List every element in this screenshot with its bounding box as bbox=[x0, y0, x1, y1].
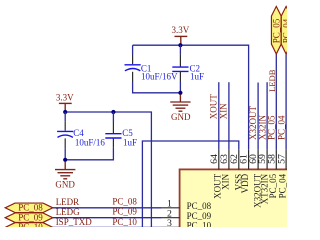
pin 59 bbox=[266, 150, 268, 170]
IC U1 body bbox=[180, 169, 295, 231]
svg-text:XIN: XIN bbox=[218, 103, 228, 119]
capacitor C2 bbox=[172, 54, 204, 81]
port PC_09 bbox=[5, 212, 53, 222]
power port 3.3V #1 bbox=[172, 25, 190, 45]
node junction C1 C2 bottom bbox=[178, 91, 182, 95]
svg-text:PC_05: PC_05 bbox=[268, 173, 278, 198]
pin 57 bbox=[285, 150, 287, 170]
svg-text:PC_08: PC_08 bbox=[187, 201, 212, 211]
svg-text:LEDR: LEDR bbox=[56, 197, 79, 207]
node junction rail2 C5 bbox=[111, 110, 115, 114]
svg-text:PC_04: PC_04 bbox=[278, 173, 287, 198]
wire XIN bbox=[228, 82, 230, 150]
svg-text:PC_10: PC_10 bbox=[187, 221, 212, 227]
svg-text:XOUT: XOUT bbox=[208, 94, 218, 119]
wire C1 branch upper bbox=[132, 45, 134, 54]
wire VSS routing bbox=[142, 141, 238, 228]
pin 61 bbox=[248, 150, 250, 170]
svg-text:PC_08: PC_08 bbox=[112, 196, 137, 206]
node junction rail1 3.3V bbox=[178, 43, 182, 47]
wire C1 branch lower bbox=[133, 82, 181, 93]
svg-text:10uF/16: 10uF/16 bbox=[75, 137, 106, 147]
node junction C4 C5 bottom bbox=[63, 158, 67, 162]
svg-text:PC_10: PC_10 bbox=[18, 222, 43, 227]
wire C2 branch upper bbox=[179, 45, 181, 54]
svg-text:1uF: 1uF bbox=[190, 72, 204, 82]
capacitor C1 bbox=[125, 55, 179, 83]
svg-text:C4: C4 bbox=[73, 128, 84, 138]
port PC_04 top bbox=[281, 6, 291, 54]
wire PC_05 port to pin bbox=[275, 54, 277, 150]
svg-text:3.3V: 3.3V bbox=[56, 93, 74, 103]
wire PC_04 port to pin bbox=[285, 54, 287, 150]
wire LEDG row bbox=[53, 217, 162, 219]
svg-text:LEDG: LEDG bbox=[56, 207, 80, 217]
svg-text:X32OUT: X32OUT bbox=[248, 106, 258, 140]
wire 3.3V rail top bbox=[133, 45, 249, 150]
pin 63 bbox=[228, 150, 230, 170]
pin 58 bbox=[275, 150, 277, 170]
svg-text:C5: C5 bbox=[122, 128, 133, 138]
wire X32OUT bbox=[257, 83, 259, 150]
svg-text:VDD: VDD bbox=[240, 173, 250, 193]
svg-text:GND: GND bbox=[171, 112, 191, 122]
svg-text:PC_05: PC_05 bbox=[267, 115, 277, 140]
pin 2 bbox=[162, 217, 180, 219]
capacitor C5 bbox=[105, 123, 137, 148]
svg-text:PC_09: PC_09 bbox=[187, 211, 212, 221]
port PC_08 bbox=[5, 202, 53, 212]
svg-text:LEDB: LEDB bbox=[267, 69, 277, 92]
node junction rail2 3.3V bbox=[63, 110, 67, 114]
capacitor C4 bbox=[57, 121, 105, 148]
svg-text:PC_04: PC_04 bbox=[281, 18, 287, 43]
wire C4 branch lower bbox=[64, 149, 66, 160]
svg-text:PC_09: PC_09 bbox=[18, 212, 43, 222]
svg-text:10uF/16V: 10uF/16V bbox=[141, 72, 178, 82]
pin 1 bbox=[162, 207, 180, 209]
svg-text:3.3V: 3.3V bbox=[172, 25, 190, 35]
pin 60 bbox=[257, 150, 259, 170]
pin 64 bbox=[218, 150, 220, 170]
wire C5 branch upper bbox=[112, 112, 114, 123]
wire LEDR row bbox=[53, 207, 162, 209]
svg-text:1uF: 1uF bbox=[123, 137, 137, 147]
svg-text:GND: GND bbox=[55, 180, 75, 190]
port PC_10 bbox=[5, 222, 53, 232]
pin 62 bbox=[238, 150, 240, 170]
ground GND #1 bbox=[170, 94, 191, 122]
wire ISP_TXD row bbox=[53, 226, 162, 228]
wire XOUT bbox=[218, 82, 220, 150]
svg-text:PC_10: PC_10 bbox=[112, 217, 137, 227]
port PC_05 top bbox=[271, 6, 281, 54]
svg-text:PC_09: PC_09 bbox=[112, 207, 137, 217]
power port 3.3V #2 bbox=[56, 93, 74, 112]
svg-text:3: 3 bbox=[167, 218, 172, 227]
svg-text:ISP_TXD: ISP_TXD bbox=[56, 217, 93, 227]
svg-text:XIN: XIN bbox=[220, 173, 230, 189]
svg-text:PC_08: PC_08 bbox=[18, 202, 43, 212]
wire C5 branch lower bbox=[65, 148, 113, 160]
svg-text:PC_05: PC_05 bbox=[272, 18, 282, 43]
wire 3.3V rail 2 bbox=[65, 112, 151, 228]
svg-text:57: 57 bbox=[276, 154, 287, 164]
wire X32IN bbox=[266, 82, 268, 150]
pin 3 bbox=[162, 226, 180, 228]
ground GND #2 bbox=[55, 161, 75, 189]
wire C4 branch upper bbox=[64, 112, 66, 121]
wire C2 branch lower bbox=[179, 82, 181, 93]
svg-text:PC_04: PC_04 bbox=[276, 115, 286, 140]
